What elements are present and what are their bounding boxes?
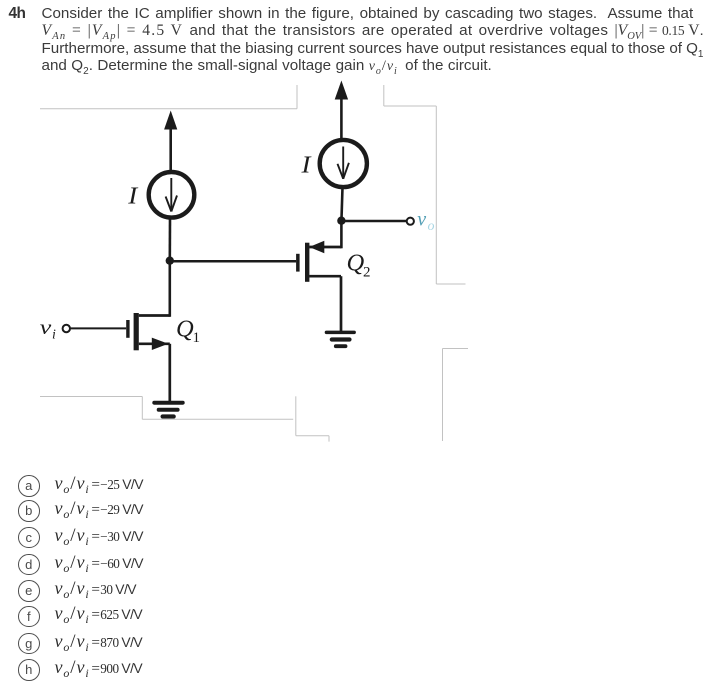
transistor Q1 drain lead	[139, 314, 170, 317]
wire: Q2 drain down to ground	[340, 276, 343, 332]
wire: node B down to Q2 source	[340, 221, 343, 249]
arrow up (right supply)	[335, 81, 348, 100]
wire: left supply vertical with arrow shaft	[169, 126, 172, 171]
ground (Q1)	[152, 401, 184, 419]
wire: right supply vertical with arrow shaft	[340, 95, 343, 138]
terminal vo open circle	[407, 218, 414, 225]
option g	[18, 634, 518, 656]
arrow up (left supply)	[164, 111, 177, 130]
problem statement	[42, 5, 707, 75]
wire: node A down to Q1 drain	[169, 261, 172, 317]
arrow on Q2 source	[309, 241, 324, 253]
transistor Q2 gate bar	[296, 254, 300, 272]
option b	[18, 501, 518, 523]
grey border: top-right horizontal	[384, 105, 437, 107]
arrow on Q1 source	[152, 338, 169, 350]
grey border: bottom-left horizontal	[40, 396, 142, 398]
wire: vi terminal to Q1 gate	[70, 327, 126, 329]
terminal vi open circle	[63, 325, 70, 332]
grey border: right step horizontal	[436, 283, 465, 285]
grey border: notch left vertical	[296, 85, 298, 109]
current source I1 (left)	[149, 172, 195, 218]
transistor Q1 channel bar	[134, 313, 139, 350]
option f	[18, 606, 518, 628]
grey border: top-left horizontal	[40, 108, 297, 110]
wire: I1 bottom to node A	[169, 219, 172, 262]
transistor Q2 drain lead	[309, 275, 341, 278]
option a	[18, 476, 518, 498]
grey border: bottom-mid vertical	[295, 396, 297, 435]
wire: node A right to Q2 gate	[170, 260, 296, 263]
node B dot	[337, 217, 345, 225]
arrow inside I2	[338, 147, 349, 179]
wire: node B right to vo terminal	[341, 220, 406, 223]
transistor Q1 gate bar	[126, 320, 129, 338]
wire: Q1 source down to ground	[168, 344, 171, 402]
transistor Q2 source lead	[309, 246, 341, 249]
node A dot	[166, 257, 174, 265]
arrow inside I1	[166, 178, 177, 212]
ground (Q2)	[325, 331, 356, 349]
option h	[18, 660, 518, 682]
pasted-fragment grey border lines	[40, 85, 468, 442]
transistor Q2 channel bar	[305, 243, 309, 282]
grey border: notch right vertical	[383, 85, 385, 106]
option e	[18, 581, 518, 603]
problem number	[9, 5, 26, 23]
grey border: bottom horizontal	[142, 418, 293, 420]
grey border: right tall vertical	[435, 106, 437, 284]
option d	[18, 555, 518, 577]
grey border: bottom-mid short vertical	[328, 436, 330, 442]
current source I2 (right)	[320, 140, 367, 187]
grey border: bottom-mid horizontal	[296, 435, 329, 437]
grey border: lower-right horizontal	[443, 348, 469, 350]
grey border: bottom step vertical	[141, 397, 143, 420]
wire: I2 bottom to node B	[341, 188, 342, 223]
grey border: lower-right vertical	[442, 349, 444, 442]
transistor Q1 source lead with arrow	[139, 342, 170, 345]
option c	[18, 528, 518, 550]
